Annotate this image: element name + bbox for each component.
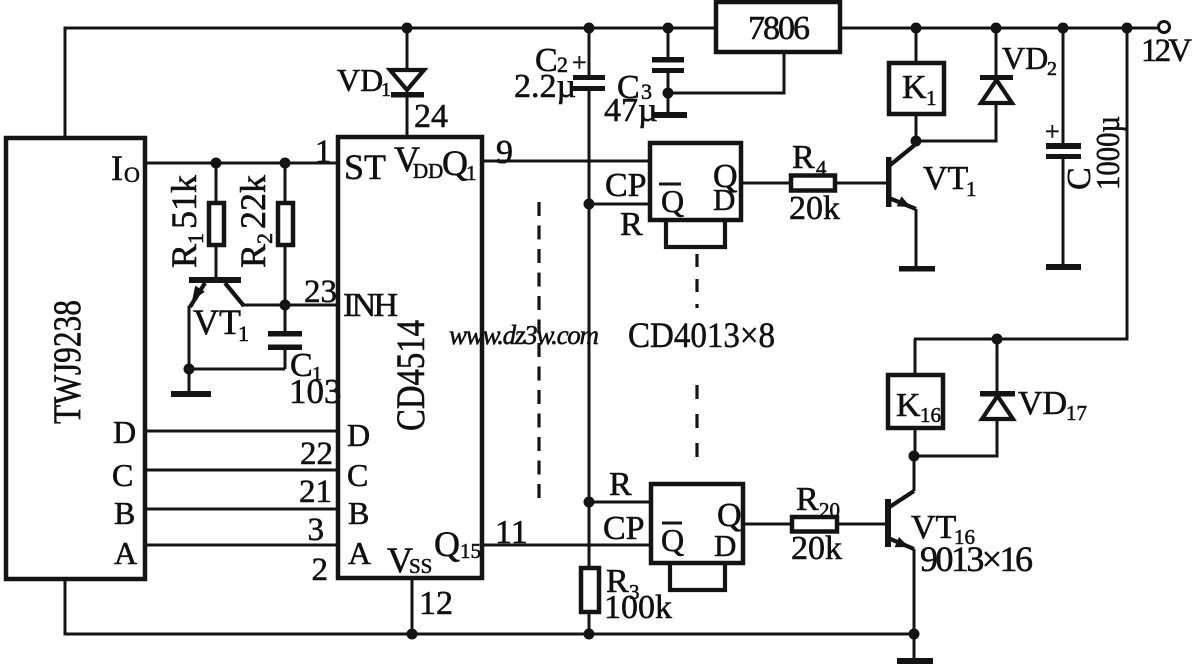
capacitor C2 2.2u on reset line	[588, 28, 591, 75]
wire: TWJ9238 bottom to ground rail, bottom rail	[65, 579, 914, 634]
svg-text:VT: VT	[923, 160, 969, 197]
node: junction reset line to FF2 R	[584, 497, 595, 508]
resistor R3 100k (vertical)	[581, 568, 599, 612]
svg-text:R222k: R222k	[233, 175, 277, 268]
node: junction VT16 collector / K16 / VD17	[909, 451, 920, 462]
svg-text:1: 1	[926, 86, 937, 110]
svg-text:K: K	[902, 69, 927, 106]
wire: C1 bottom to emitter junction	[189, 368, 285, 371]
resistor R1 51k (vertical)	[215, 163, 218, 203]
svg-text:23: 23	[304, 274, 337, 310]
svg-text:9013×16: 9013×16	[920, 539, 1033, 579]
wire: IO output to CD4514 ST pin 1	[145, 162, 338, 165]
node: junction VD17 top	[992, 334, 1003, 345]
node: junction R2 top on ST line	[280, 158, 291, 169]
svg-text:1000µ: 1000µ	[1090, 116, 1127, 190]
dashed separator line (inside, between CD4514 and flip-flops)	[537, 202, 540, 499]
transistor VT1 (right) collector	[889, 144, 916, 166]
wire: reset line tap to FF2 R input	[589, 501, 651, 504]
svg-text:R151k: R151k	[164, 175, 208, 268]
svg-text:K: K	[896, 387, 921, 424]
ground bar under VT1 left	[171, 391, 211, 397]
node: junction emitter / C1 bottom	[184, 364, 195, 375]
capacitor C1 103	[284, 305, 287, 331]
ground bar under C3	[652, 112, 687, 118]
wire: FF2 Q output to R20	[743, 523, 792, 526]
dashed repetition line above CD4013x8 label	[695, 254, 698, 308]
svg-text:C: C	[347, 457, 368, 493]
node: junction K1 on top rail	[911, 23, 922, 34]
wire: K1 bottom to VT1 collector junction	[915, 114, 918, 141]
wire: top rail to relay K1	[915, 28, 918, 63]
transistor VT1 (right) emitter with arrow	[889, 198, 916, 209]
wire: B line	[145, 508, 338, 511]
svg-text:SS: SS	[409, 554, 432, 578]
svg-text:7806: 7806	[748, 10, 810, 47]
svg-text:D: D	[714, 528, 736, 563]
svg-text:CP: CP	[605, 167, 647, 204]
svg-text:1: 1	[238, 321, 249, 346]
svg-text:I: I	[111, 148, 123, 188]
svg-text:CD4514: CD4514	[388, 320, 433, 431]
wire: +12V top rail right segment from 7806 output to 12V terminal	[840, 27, 1158, 30]
svg-text:1: 1	[315, 134, 332, 170]
ground bar under C 1000u	[1046, 264, 1081, 270]
relay K16 box	[888, 375, 943, 428]
CD4013 FF2 box	[651, 484, 743, 563]
svg-text:21: 21	[299, 474, 332, 510]
node: 12V input terminal (open circle)	[1159, 22, 1170, 33]
ground bar under VT1 right	[899, 266, 935, 272]
CD4013 FF1 bottom tab	[666, 220, 725, 247]
wire: D line TWJ9238 to CD4514	[145, 430, 338, 433]
svg-text:12: 12	[419, 585, 453, 622]
svg-text:D: D	[347, 417, 370, 453]
node: junction R2/C1 on INH line	[280, 300, 291, 311]
svg-text:CP: CP	[603, 510, 645, 547]
svg-text:1: 1	[381, 79, 391, 101]
svg-text:Q: Q	[661, 183, 684, 219]
diode VD1	[406, 28, 409, 70]
svg-text:4: 4	[816, 156, 827, 180]
svg-text:VD: VD	[1002, 40, 1048, 76]
wire: VT1 emitter to ground	[915, 209, 918, 266]
wire: reset line tap to FF1 R input	[589, 203, 650, 206]
capacitor C3 47u	[667, 28, 670, 57]
CD4013 FF2 bottom tab	[670, 563, 725, 590]
svg-text:2.2µ: 2.2µ	[514, 68, 576, 105]
svg-text:CD4013×8: CD4013×8	[628, 315, 775, 355]
transistor VT1 (left) emitter with arrow	[190, 283, 205, 307]
svg-text:47µ: 47µ	[604, 92, 658, 129]
wire: +12V top rail left segment with corner down to TWJ9238	[65, 28, 717, 139]
node: junction right branch on top rail	[1122, 23, 1133, 34]
svg-text:100k: 100k	[604, 589, 672, 626]
dashed repetition line below CD4013x8 label	[695, 385, 698, 464]
wire: Q1 pin 9 to CD4013 FF1 CP input	[482, 160, 650, 163]
diode VD17 (flyback)	[996, 339, 999, 391]
regulator 7806 box	[716, 2, 840, 52]
svg-text:B: B	[348, 495, 369, 531]
node: junction VSS on bottom rail	[407, 629, 418, 640]
CD4013 FF1 box	[650, 143, 741, 220]
transistor VT16 (NPN 9013) base bar	[885, 499, 891, 547]
wire: K16 top feed	[914, 339, 917, 375]
svg-text:C: C	[112, 457, 133, 493]
svg-text:+: +	[1045, 117, 1060, 146]
resistor R20 20k (horizontal)	[792, 517, 837, 532]
svg-text:2: 2	[312, 552, 329, 588]
wire: VSS pin 12 down to bottom rail	[411, 578, 414, 634]
capacitor C 1000u (electrolytic)	[1062, 28, 1065, 143]
svg-text:www.dz3w.com: www.dz3w.com	[449, 320, 599, 350]
svg-text:1: 1	[966, 177, 977, 201]
svg-text:24: 24	[414, 98, 448, 135]
svg-text:3: 3	[308, 512, 325, 548]
svg-text:1: 1	[466, 161, 477, 185]
IC TWJ9238 box	[6, 138, 145, 579]
wire: Q15 pin 11 to CD4013 FF2 CP input	[482, 544, 651, 547]
diode VD2 (flyback)	[995, 28, 998, 75]
svg-text:INH: INH	[343, 287, 398, 324]
svg-text:VT: VT	[193, 302, 241, 342]
svg-text:D: D	[113, 414, 136, 450]
transistor VT1 (right, NPN 9013) base bar	[886, 157, 892, 207]
wire: A line	[145, 544, 338, 547]
resistor R4 20k (horizontal)	[791, 176, 835, 191]
node: junction C3 / 7806 ground	[663, 88, 674, 99]
svg-text:103: 103	[289, 372, 342, 411]
node: junction VT16 emitter on bottom rail	[909, 629, 920, 640]
svg-text:R: R	[792, 139, 815, 176]
IC CD4514 box	[338, 137, 482, 578]
transistor VT1 (left) collector	[225, 283, 244, 306]
wire: K16 bottom to VT16 collector junction	[914, 428, 917, 456]
svg-text:Q: Q	[434, 524, 460, 564]
wire: collector to INH pin 23	[241, 304, 338, 307]
svg-text:R: R	[796, 481, 819, 518]
svg-text:Q: Q	[442, 143, 468, 183]
svg-text:20: 20	[819, 498, 840, 522]
svg-text:16: 16	[920, 403, 941, 427]
wire: VT16 emitter down through ground rail to ground	[913, 549, 916, 658]
wire: 7806 ground pin down and left to C3 junction	[668, 52, 784, 93]
svg-text:VD: VD	[337, 62, 383, 98]
svg-text:15: 15	[460, 539, 481, 563]
node: junction C2 on top rail	[584, 23, 595, 34]
svg-text:ST: ST	[344, 147, 386, 187]
wire: FF1 Q output to R4	[741, 182, 791, 185]
svg-text:R: R	[609, 466, 632, 503]
wire: right vertical branch from top rail to K16 row	[914, 28, 1127, 339]
node: junction R1 top on ST line	[211, 158, 222, 169]
svg-text:9: 9	[496, 134, 513, 171]
node: junction C 1000u on top rail	[1058, 23, 1069, 34]
node: junction VD1 on top rail	[402, 23, 413, 34]
svg-text:2: 2	[1047, 58, 1057, 80]
node: junction VT1 collector / K1 / VD2	[911, 136, 922, 147]
node: junction VD2 on top rail	[991, 23, 1002, 34]
wire: VT1 emitter down to ground	[188, 306, 191, 391]
node: junction R3 bottom on ground rail	[584, 629, 595, 640]
svg-text:12V: 12V	[1141, 33, 1192, 69]
svg-text:D: D	[713, 182, 735, 217]
node: junction C3 on top rail	[663, 23, 674, 34]
relay K1 box	[889, 63, 944, 114]
ground bar under VT16	[897, 658, 933, 664]
svg-text:Q: Q	[661, 522, 684, 558]
transistor VT16 emitter with arrow	[888, 538, 914, 549]
wire: reset line C2 bottom down through FF taps to R3	[588, 91, 591, 568]
svg-text:A: A	[114, 535, 137, 571]
transistor VT16 collector	[888, 491, 914, 508]
svg-text:O: O	[124, 162, 140, 187]
svg-text:B: B	[114, 495, 135, 531]
svg-text:DD: DD	[413, 159, 443, 183]
node: junction reset line to FF1 R	[584, 199, 595, 210]
resistor R2 22k (vertical)	[284, 163, 287, 203]
wire: C line	[145, 469, 338, 472]
svg-text:TWJ9238: TWJ9238	[46, 300, 89, 424]
svg-text:R: R	[620, 206, 643, 243]
svg-text:22: 22	[300, 436, 333, 472]
svg-text:VD: VD	[1018, 385, 1067, 422]
svg-text:20k: 20k	[791, 530, 842, 567]
svg-text:20k: 20k	[789, 190, 840, 227]
svg-text:17: 17	[1066, 401, 1087, 425]
transistor VT1 (left, NPN) base bar	[189, 277, 241, 283]
svg-text:A: A	[348, 535, 371, 571]
